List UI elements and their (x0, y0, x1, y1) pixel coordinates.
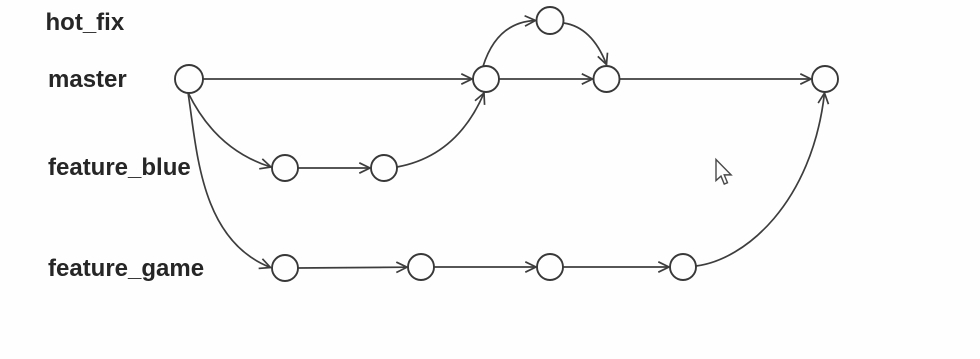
wire feature_game G2 to G3 (434, 266, 536, 268)
svg-text:feature_blue: feature_blue (48, 154, 191, 181)
wire branch M2 to H1 (483, 21, 536, 67)
node feature_game G4 (670, 254, 696, 280)
node hot_fix H1 (537, 7, 564, 34)
wire merge H1 to M3 (564, 23, 607, 65)
wire branch M1 to B1 (188, 93, 271, 168)
svg-text:master: master (48, 66, 127, 93)
wire merge B2 to M2 (397, 93, 484, 167)
node feature_game G1 (272, 255, 298, 281)
wire master M1 to M2 (203, 78, 472, 80)
wire merge G4 to M4 (696, 93, 825, 266)
node feature_game G2 (408, 254, 434, 280)
wire feature_blue B1 to B2 (298, 167, 370, 169)
wire master M2 to M3 (499, 78, 593, 80)
wire feature_game G3 to G4 (563, 266, 669, 268)
node master M1 (175, 65, 203, 93)
node feature_blue B2 (371, 155, 397, 181)
node master M2 (473, 66, 499, 92)
node feature_blue B1 (272, 155, 298, 181)
mouse cursor (716, 160, 731, 185)
wire master M3 to M4 (620, 78, 812, 80)
svg-text:feature_game: feature_game (48, 255, 204, 282)
node master M4 (812, 66, 838, 92)
node feature_game G3 (537, 254, 563, 280)
wire feature_game G1 to G2 (298, 266, 407, 269)
node master M3 (594, 66, 620, 92)
svg-text:hot_fix: hot_fix (46, 9, 125, 36)
wire branch M1 to G1 (188, 93, 271, 268)
